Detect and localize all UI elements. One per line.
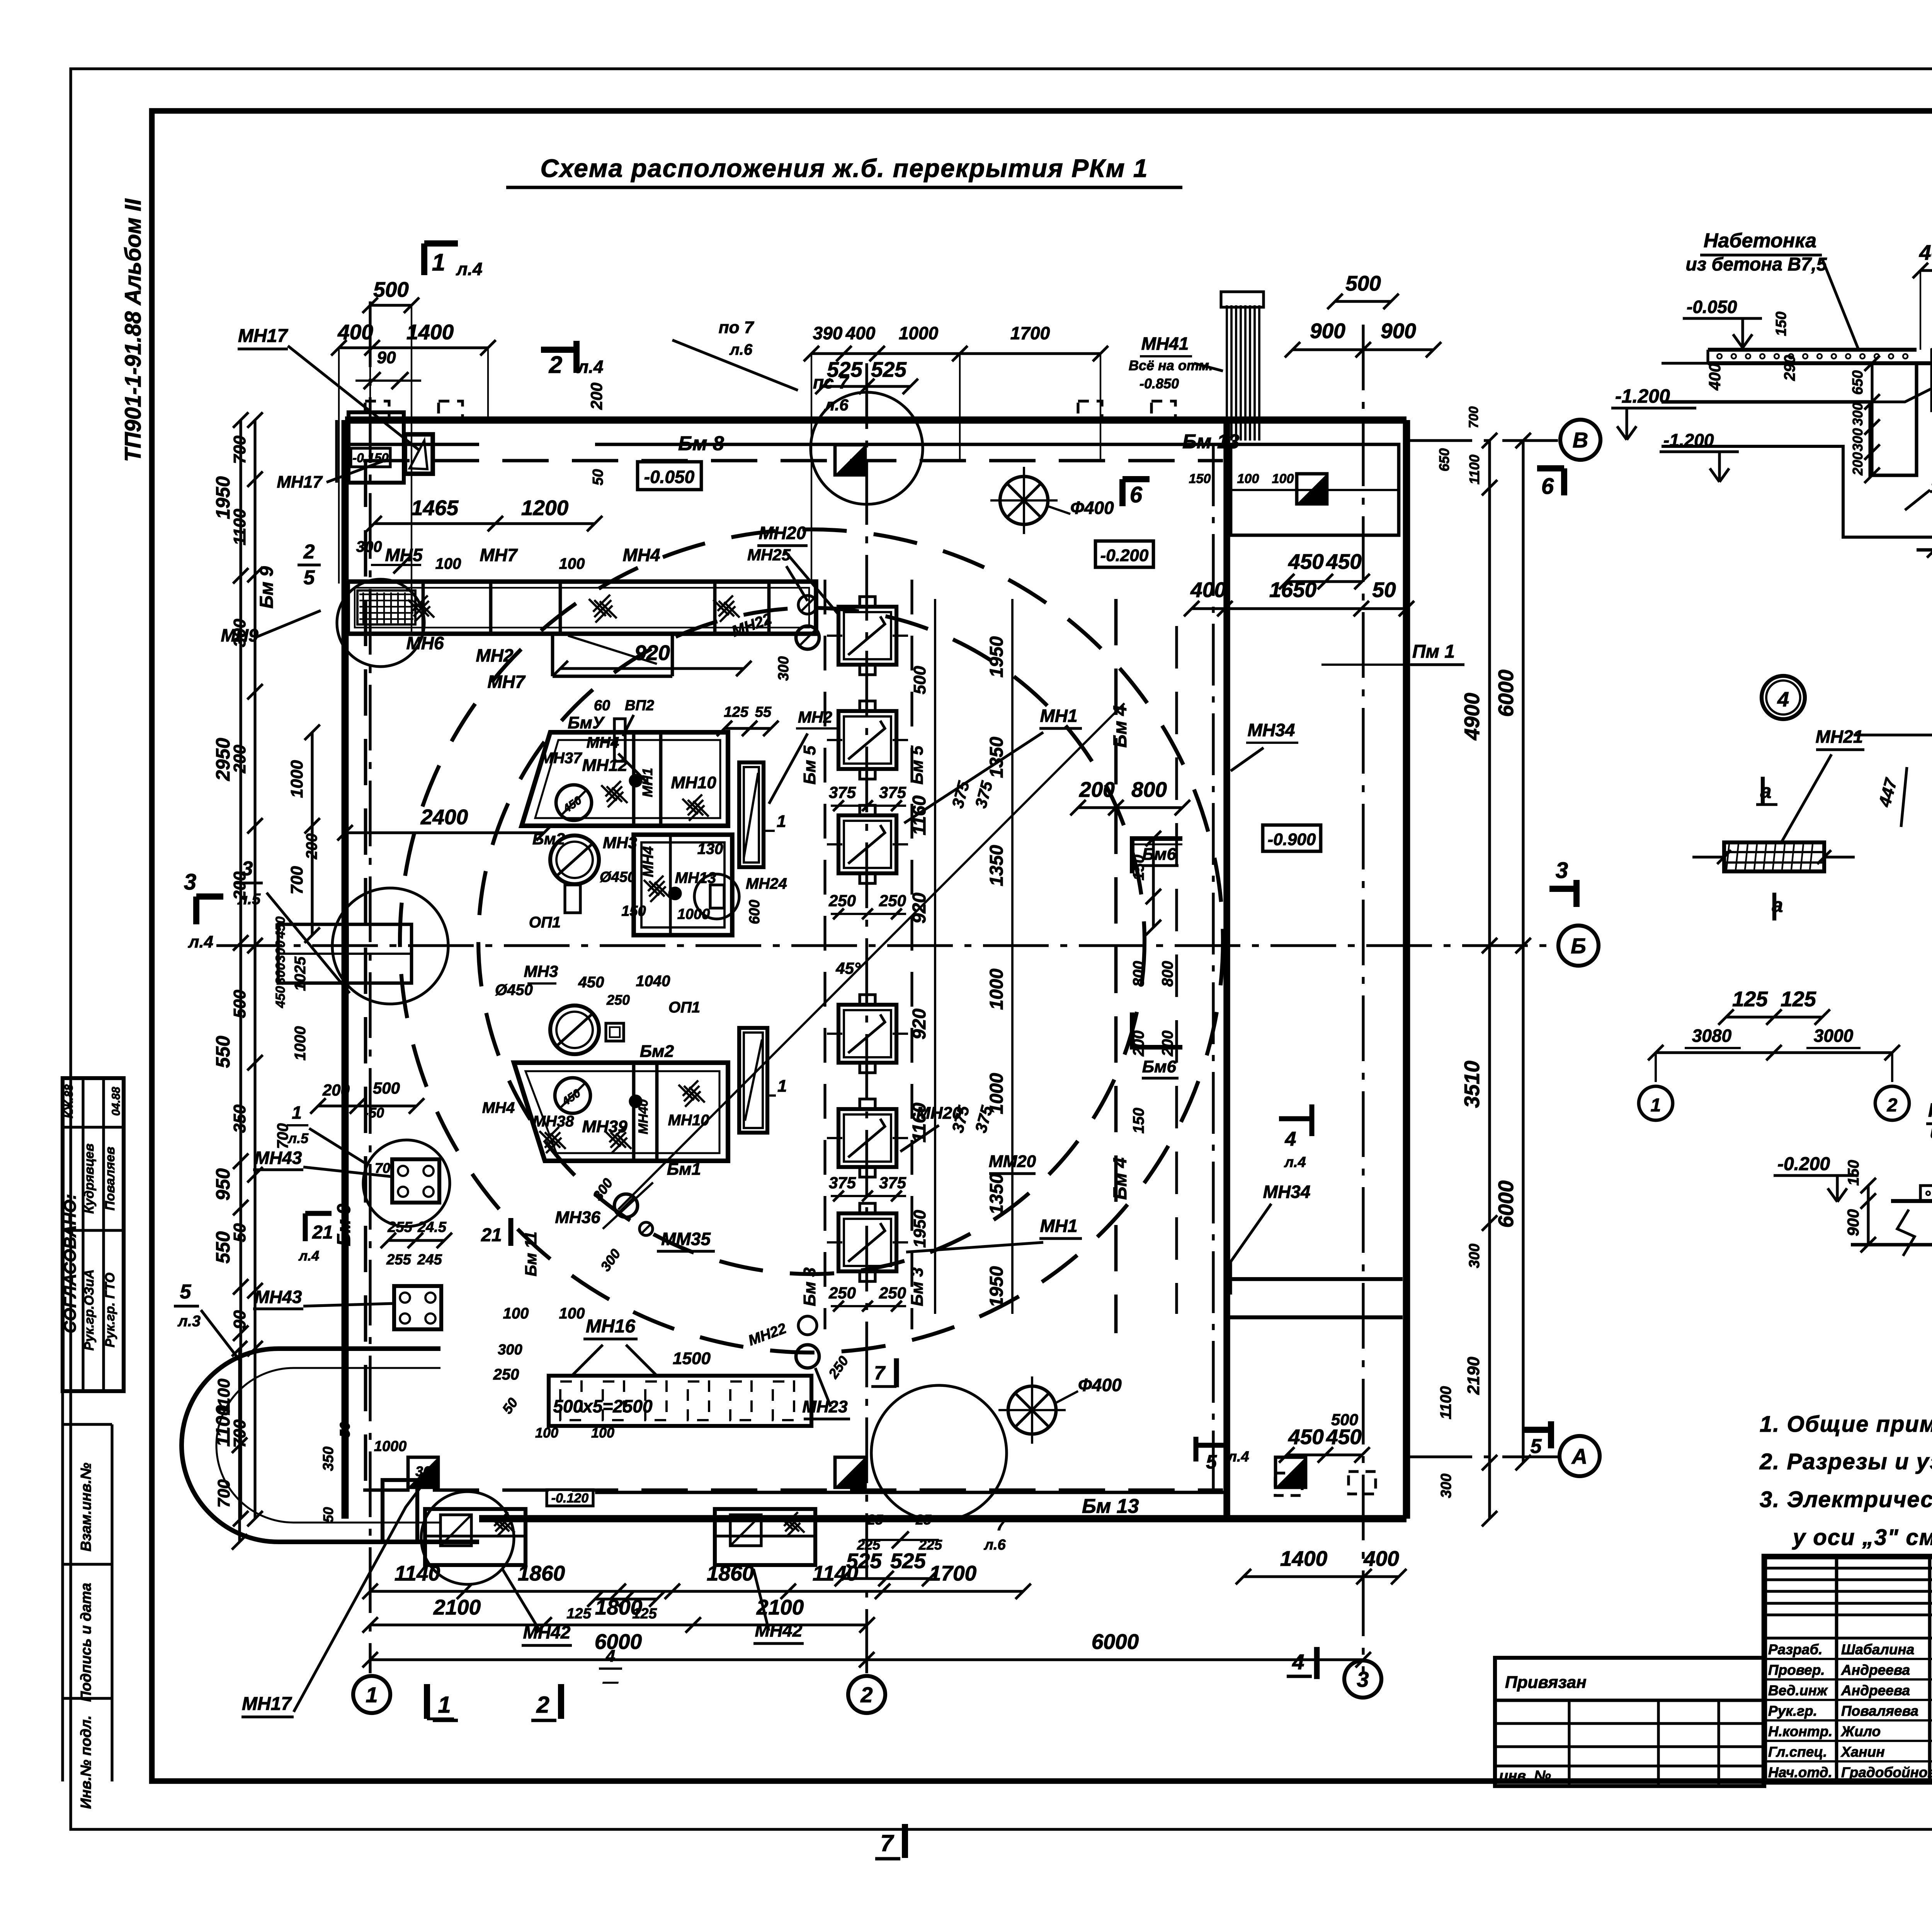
svg-text:130: 130 (697, 840, 723, 857)
svg-text:МН43: МН43 (255, 1287, 302, 1307)
top-left corner block (337, 412, 433, 483)
svg-text:—: — (602, 1673, 619, 1690)
svg-text:МН7: МН7 (487, 672, 526, 692)
svg-text:150: 150 (1845, 1160, 1862, 1186)
strip dims 1465/1200 (356, 496, 602, 573)
7-7 left dims 150/900 (1844, 1160, 1876, 1252)
svg-text:25: 25 (867, 1512, 883, 1528)
svg-text:90: 90 (230, 1310, 249, 1329)
svg-text:25: 25 (915, 1512, 932, 1528)
svg-text:-0.200: -0.200 (1100, 546, 1149, 565)
svg-text:л.4: л.4 (1227, 1449, 1249, 1465)
svg-text:125: 125 (566, 1606, 591, 1622)
beam line Bm4 (right, dashed) (1110, 599, 1131, 1333)
section mark 5 l.4 (bottom right) (1196, 1437, 1249, 1473)
svg-text:50: 50 (1372, 578, 1396, 602)
svg-text:Бм 8: Бм 8 (678, 432, 724, 455)
svg-text:1000: 1000 (287, 760, 306, 798)
svg-text:Набетонка: Набетонка (1704, 230, 1816, 252)
svg-text:2. Разрезы и узлы см. л. 3: 2. Разрезы и узлы см. л. 3÷л. 7. (1759, 1449, 1932, 1474)
svg-text:Андреева: Андреева (1841, 1683, 1910, 1698)
svg-text:ММ35: ММ35 (661, 1229, 711, 1249)
slab panel MN20/MN1 #4 (827, 995, 908, 1073)
slab column mini dim lines (831, 800, 906, 811)
slab panel MN20/MN1 #1 (827, 597, 908, 675)
svg-text:МН34: МН34 (1263, 1182, 1311, 1202)
svg-text:л.6: л.6 (983, 1537, 1006, 1553)
svg-text:6000: 6000 (1494, 1180, 1518, 1228)
svg-text:Бм 5: Бм 5 (800, 745, 819, 784)
svg-text:375: 375 (879, 1174, 906, 1192)
inner drawing frame (152, 111, 1932, 1781)
svg-text:70: 70 (375, 1160, 390, 1176)
detail circle top (ps7 l.6) (672, 318, 923, 504)
svg-text:7: 7 (880, 1830, 894, 1856)
title block left columns (1837, 1557, 1932, 1782)
svg-text:1200: 1200 (521, 496, 569, 520)
svg-text:4: 4 (1292, 1650, 1304, 1674)
approval stamp box (rotated) (61, 1078, 124, 1391)
big dashed circle (inner) (478, 608, 1145, 1274)
section mark 1 l.4 (top) (424, 243, 482, 279)
right vertical dims 2190/1100 (1436, 407, 1482, 1498)
hole symbol F400 bottom (998, 1375, 1122, 1444)
left dim 2400/1000/700 block (274, 725, 552, 1149)
internal vertical dims (1350/1000) (986, 599, 1012, 1314)
svg-text:550: 550 (212, 1036, 234, 1068)
drawing title (506, 154, 1182, 187)
internal vertical dims (920/1160) (909, 599, 935, 1314)
svg-text:50: 50 (337, 1422, 353, 1438)
svg-text:Рук.гр.ОЗиА: Рук.гр.ОЗиА (82, 1269, 97, 1351)
svg-text:375: 375 (829, 783, 856, 801)
svg-text:БмУ: БмУ (568, 713, 605, 732)
a-a 447 dim (left) (1875, 767, 1907, 827)
svg-text:900: 900 (1381, 319, 1416, 343)
svg-text:Бм6: Бм6 (1142, 1057, 1177, 1076)
svg-text:Н.контр.: Н.контр. (1768, 1723, 1832, 1739)
MN17 labels top-left (238, 326, 419, 492)
dim 920 + 60 VP2 (upper cluster) (553, 641, 752, 761)
axis circle V (1560, 420, 1600, 460)
axis 1 (vertical) (369, 301, 371, 1673)
axis V (horizontal, top) (1406, 439, 1558, 442)
svg-text:МН3: МН3 (603, 834, 637, 852)
detail circle bottom-left MN42 (421, 1492, 514, 1584)
svg-text:Рук.гр. ГТО: Рук.гр. ГТО (103, 1273, 117, 1347)
section mark 3 (left) (184, 869, 223, 951)
svg-text:МН17: МН17 (238, 326, 288, 346)
section mark 5 (right, near axis A) (1524, 1421, 1551, 1458)
privyazan sub table (1495, 1658, 1764, 1786)
svg-text:200: 200 (322, 1081, 350, 1099)
svg-text:1860: 1860 (518, 1561, 565, 1585)
left dim chain outer (212, 412, 248, 1526)
svg-text:700: 700 (230, 436, 249, 464)
svg-text:Бм 3: Бм 3 (908, 1267, 927, 1306)
6-6 ground line (1917, 550, 1932, 560)
svg-text:300: 300 (1438, 1473, 1454, 1498)
svg-text:90: 90 (377, 348, 396, 367)
axis circle 2 (848, 1676, 885, 1713)
svg-text:1. Общие примечания см. л.: 1. Общие примечания см. л. 1. (1760, 1412, 1932, 1437)
beam lines Bm5/Bm3 flanking slab column (800, 580, 927, 1329)
svg-text:300: 300 (415, 1463, 439, 1479)
right dim chain outer (6000/6000) (1494, 433, 1531, 1470)
svg-text:ВП2: ВП2 (625, 698, 654, 714)
svg-text:400: 400 (1363, 1547, 1399, 1570)
svg-text:3. Электрические каналы для: 3. Электрические каналы для прокладки ка… (1760, 1487, 1932, 1512)
title block outer (1764, 1557, 1932, 1782)
svg-text:525: 525 (827, 357, 863, 381)
svg-text:Поваляева: Поваляева (1841, 1703, 1918, 1719)
svg-text:2190: 2190 (1464, 1357, 1483, 1395)
svg-text:3080: 3080 (1692, 1026, 1732, 1046)
right dims 200/800 (1070, 778, 1190, 815)
level box -0.200 (1095, 541, 1153, 567)
detail circle 4 (1762, 676, 1805, 719)
svg-text:Схема расположения ж.б. п: Схема расположения ж.б. перекрытия РКм 1 (540, 154, 1148, 182)
svg-text:800: 800 (1130, 961, 1147, 987)
svg-text:2100: 2100 (756, 1595, 804, 1619)
svg-text:1000: 1000 (292, 1026, 309, 1061)
svg-text:300: 300 (1850, 428, 1866, 451)
svg-text:500: 500 (230, 990, 249, 1018)
6-6 left dims (1706, 311, 1880, 483)
middle cluster MN4/MN13 (621, 835, 787, 935)
top dims 390/400/1000/1700 (804, 323, 1108, 580)
svg-text:1: 1 (366, 1683, 378, 1707)
MN17 labels bottom-left (241, 1484, 423, 1717)
svg-text:650: 650 (1436, 448, 1452, 471)
right small dims column 150/800/200 (1130, 831, 1176, 1133)
svg-text:-0.900: -0.900 (1268, 830, 1316, 849)
svg-text:125: 125 (724, 704, 748, 720)
svg-text:Шабалина: Шабалина (1841, 1642, 1914, 1657)
svg-text:3: 3 (184, 869, 196, 895)
bottom right dims 1400/400 (1236, 1547, 1406, 1584)
svg-text:л.6: л.6 (824, 396, 849, 414)
slab panel MN20/MN1 #3 (827, 805, 908, 883)
a-a dims 3080/3000 (1648, 1026, 1900, 1082)
axis 2 (vertical) (865, 363, 868, 1673)
svg-text:255: 255 (387, 1219, 412, 1235)
svg-text:800: 800 (1131, 778, 1167, 801)
svg-text:375: 375 (829, 1174, 856, 1192)
svg-text:375: 375 (879, 783, 906, 801)
right dims 400/1650/50 (1184, 578, 1414, 616)
svg-text:СОГЛАСОВАНО:: СОГЛАСОВАНО: (61, 1194, 80, 1334)
svg-text:700: 700 (274, 1123, 291, 1149)
svg-text:21: 21 (312, 1222, 333, 1243)
svg-text:МН17: МН17 (277, 473, 323, 492)
axis circle B (1558, 926, 1599, 966)
6-6 top dims (1913, 230, 1932, 350)
svg-text:1: 1 (292, 1102, 302, 1123)
svg-text:МН24: МН24 (746, 875, 787, 892)
svg-text:л.3: л.3 (177, 1313, 201, 1330)
title block personnel rows (1764, 1659, 1932, 1761)
svg-text:МН1: МН1 (1040, 1216, 1077, 1236)
svg-text:1800: 1800 (595, 1595, 643, 1619)
dashed column marks on top wall (365, 401, 1175, 420)
svg-text:В: В (1573, 428, 1588, 452)
svg-text:150: 150 (1773, 311, 1789, 336)
upper room cluster BmU: MN12/MN10 (522, 713, 728, 826)
svg-text:Бм 5: Бм 5 (908, 745, 927, 784)
svg-text:-1.200: -1.200 (1615, 385, 1670, 407)
svg-text:300: 300 (356, 538, 382, 555)
svg-text:-0.050: -0.050 (1687, 297, 1737, 317)
svg-text:400: 400 (337, 320, 373, 344)
section mark 6 (top) (1122, 479, 1150, 507)
svg-text:Бм 13: Бм 13 (1082, 1495, 1139, 1518)
svg-text:700: 700 (1466, 407, 1481, 429)
bottom-left corner blocks MN42 (383, 1480, 815, 1565)
section mark 4 (right extension) (1279, 1104, 1312, 1171)
bottom dim row 6000+6000 (362, 1630, 1371, 1667)
dims 25/225 pair bottom (857, 1512, 942, 1553)
svg-text:1100: 1100 (214, 1378, 233, 1415)
svg-text:Бм 9: Бм 9 (334, 1204, 354, 1246)
svg-text:у оси „3" см. л. 22.: у оси „3" см. л. 22. (1792, 1525, 1932, 1550)
svg-text:МН40: МН40 (636, 1099, 651, 1135)
svg-text:100: 100 (559, 1305, 585, 1322)
dims 525/525 bottom (835, 1549, 937, 1586)
label 2/5 pair leader circle left (273, 888, 448, 1008)
svg-text:Кудрявцев: Кудрявцев (82, 1143, 97, 1214)
svg-text:300: 300 (273, 963, 288, 985)
svg-text:МН4: МН4 (622, 545, 660, 565)
svg-text:л.4: л.4 (456, 259, 483, 279)
svg-text:1400: 1400 (1280, 1547, 1328, 1570)
svg-text:Вед.инж: Вед.инж (1768, 1683, 1828, 1698)
svg-text:3: 3 (1357, 1667, 1369, 1691)
svg-text:150: 150 (1189, 471, 1211, 486)
left bottom vertical dims 1100/700/350/50 (214, 1341, 439, 1550)
svg-text:6: 6 (1130, 482, 1143, 507)
svg-text:5: 5 (1206, 1451, 1217, 1473)
svg-text:Жило: Жило (1840, 1723, 1881, 1739)
svg-text:250: 250 (828, 891, 856, 910)
svg-text:525: 525 (890, 1549, 926, 1573)
svg-text:-0.850: -0.850 (1139, 376, 1179, 391)
svg-text:МН4: МН4 (640, 846, 656, 877)
plan: bottom wall (479, 1492, 1406, 1519)
svg-text:Гл.спец.: Гл.спец. (1768, 1744, 1827, 1760)
svg-text:Набетонка: Набетонка (1928, 1099, 1932, 1121)
svg-text:МН17: МН17 (242, 1694, 292, 1714)
MN41 cable risers (1129, 292, 1264, 441)
axis 3 (vertical) (1362, 325, 1364, 1673)
7-7 nabetonka label (1926, 1099, 1932, 1194)
svg-text:1950: 1950 (986, 1266, 1007, 1307)
section mark 7 (in plan bottom) (871, 1358, 896, 1387)
6-6 slab with dotted topping (1662, 350, 1932, 363)
svg-text:Градобойнов: Градобойнов (1841, 1764, 1932, 1780)
top dim 525/525 (815, 357, 918, 394)
svg-text:250: 250 (493, 1366, 519, 1383)
svg-text:Бм6: Бм6 (1142, 845, 1177, 864)
svg-text:МН37: МН37 (541, 750, 582, 767)
svg-text:150: 150 (1130, 1108, 1147, 1134)
svg-text:Провер.: Провер. (1768, 1662, 1825, 1678)
svg-text:800: 800 (1159, 961, 1176, 987)
svg-text:900: 900 (1310, 319, 1345, 343)
svg-text:Привязан: Привязан (1505, 1673, 1587, 1692)
svg-text:300: 300 (1466, 1244, 1483, 1268)
right 450/450 dims (1279, 550, 1370, 1463)
labels MN34 (1231, 720, 1310, 1295)
svg-text:Взам.инв.№: Взам.инв.№ (78, 1463, 94, 1552)
svg-text:А: А (1571, 1444, 1587, 1468)
right dim chain inner (4900/3510/900) (1460, 433, 1497, 1526)
svg-text:2400: 2400 (420, 805, 468, 829)
tall narrow plates (1) (739, 762, 787, 1133)
beam line Bm4b (dashed) (1175, 626, 1178, 1314)
svg-text:200: 200 (230, 745, 249, 774)
svg-text:400: 400 (1919, 240, 1932, 264)
svg-text:Б: Б (1571, 934, 1586, 958)
svg-text:1860: 1860 (707, 1561, 754, 1585)
top dim 400/1400 (331, 320, 496, 584)
7-7 level -0.200 (1774, 1154, 1859, 1202)
svg-text:500: 500 (1331, 1410, 1358, 1429)
svg-text:МН16: МН16 (586, 1316, 635, 1337)
big circles (wells) left (495, 830, 700, 1054)
svg-text:1025: 1025 (292, 956, 309, 991)
svg-text:950: 950 (212, 1168, 234, 1201)
detail circle left strip (337, 579, 424, 667)
svg-text:л.4: л.4 (577, 357, 604, 377)
left dim chain inner (230, 412, 263, 1526)
svg-text:2100: 2100 (433, 1595, 481, 1619)
upper beam strip MN5/MN7/MN4 (348, 582, 816, 676)
svg-text:200: 200 (1159, 1031, 1176, 1057)
svg-text:700: 700 (214, 1479, 233, 1508)
svg-text:450: 450 (1326, 550, 1362, 573)
big dashed circle (outer) (400, 529, 1223, 1353)
svg-text:525: 525 (871, 357, 907, 381)
svg-text:1: 1 (432, 249, 445, 276)
svg-text:200: 200 (1079, 778, 1115, 801)
7-7 step profile (1851, 1186, 1932, 1280)
svg-text:700: 700 (287, 866, 306, 895)
svg-text:1465: 1465 (411, 496, 459, 520)
svg-text:Разраб.: Разраб. (1768, 1642, 1823, 1657)
axis circle A (1560, 1436, 1600, 1476)
svg-text:7: 7 (996, 1516, 1006, 1534)
svg-text:350: 350 (230, 1104, 249, 1133)
svg-text:л.6: л.6 (729, 341, 753, 358)
svg-text:300: 300 (230, 619, 249, 647)
section mark 3 (right) (1549, 858, 1577, 907)
section marks 21 (298, 1213, 540, 1276)
svg-text:100: 100 (435, 555, 461, 572)
svg-text:4: 4 (1285, 1128, 1296, 1150)
svg-text:1160: 1160 (909, 795, 930, 835)
svg-text:из бетона: из бетона (1930, 1122, 1932, 1142)
svg-text:450: 450 (273, 986, 288, 1009)
svg-text:Бм2: Бм2 (640, 1042, 674, 1061)
svg-text:Бм1: Бм1 (667, 1160, 701, 1179)
svg-text:250: 250 (879, 1284, 906, 1302)
svg-text:1000: 1000 (899, 323, 939, 343)
axis circle 3 (1344, 1660, 1381, 1698)
svg-text:Ø450: Ø450 (600, 869, 636, 885)
svg-text:650: 650 (1850, 370, 1866, 395)
svg-text:МН3: МН3 (524, 962, 558, 980)
svg-text:450: 450 (1288, 550, 1324, 573)
svg-text:-0.150: -0.150 (352, 451, 389, 465)
title block thin top rows (1764, 1568, 1932, 1638)
svg-text:6: 6 (1541, 474, 1554, 499)
svg-text:450: 450 (273, 917, 288, 939)
6-6 MN41 label (1905, 412, 1932, 510)
svg-text:250: 250 (879, 891, 906, 910)
a-a axis circles B/A (top) (1854, 649, 1932, 753)
svg-text:Пм 1: Пм 1 (1412, 641, 1455, 662)
hole symbol F400 top (990, 467, 1114, 534)
svg-text:-1.200: -1.200 (1663, 430, 1714, 450)
svg-text:Андреева: Андреева (1841, 1662, 1910, 1678)
svg-text:ММ20: ММ20 (989, 1152, 1036, 1171)
section mark 2 l.4 (top) (541, 341, 603, 378)
svg-text:МН7: МН7 (480, 545, 518, 565)
svg-text:-0.050: -0.050 (644, 467, 695, 487)
6-6 level -0.050 left (1683, 297, 1762, 348)
svg-text:125: 125 (1732, 987, 1768, 1011)
svg-text:390: 390 (813, 323, 843, 343)
svg-text:МН4: МН4 (482, 1099, 515, 1116)
a-a dims 125/125 (1718, 987, 1830, 1025)
section mark 3 l.5 (left) (236, 857, 350, 993)
svg-text:4: 4 (1777, 688, 1789, 711)
svg-text:МН10: МН10 (671, 773, 716, 792)
svg-text:525: 525 (846, 1549, 882, 1573)
svg-text:по 7: по 7 (719, 318, 755, 337)
bottom mark 4 (right) (1287, 1647, 1317, 1679)
bottom strip MN16 columns (493, 1305, 811, 1426)
bottom dim row 2100/1800/2100 (362, 1595, 875, 1633)
svg-text:100: 100 (1237, 471, 1259, 486)
beam line Bm13 (bottom, dashed) (363, 1490, 1223, 1518)
detail circle MN13 (694, 874, 739, 919)
svg-text:2: 2 (860, 1683, 872, 1707)
bottom-left pit (stadium shape) (182, 1349, 479, 1542)
svg-text:350: 350 (320, 1446, 337, 1471)
svg-text:МН2: МН2 (798, 708, 832, 726)
svg-text:из бетона В7,5: из бетона В7,5 (1685, 254, 1827, 275)
svg-text:Ф400: Ф400 (1078, 1375, 1122, 1395)
svg-text:100: 100 (535, 1425, 558, 1441)
svg-text:125: 125 (1781, 987, 1816, 1011)
svg-text:МН25: МН25 (747, 546, 791, 564)
svg-text:300: 300 (1850, 403, 1866, 426)
svg-text:Бм 9: Бм 9 (257, 566, 277, 609)
svg-text:2: 2 (303, 541, 315, 563)
svg-text:150: 150 (621, 903, 646, 919)
svg-text:МН34: МН34 (1248, 720, 1295, 740)
diagonal 45 reference line (618, 703, 1124, 1210)
detail circle MN17 left (363, 1140, 450, 1227)
svg-text:Рук.гр.: Рук.гр. (1768, 1703, 1817, 1719)
svg-text:1040: 1040 (636, 973, 670, 990)
svg-text:2: 2 (1887, 1095, 1898, 1116)
svg-text:3: 3 (1556, 858, 1568, 883)
6-6 bottom dims 700/900/900 (1927, 520, 1932, 558)
svg-text:-0.120: -0.120 (551, 1491, 588, 1506)
